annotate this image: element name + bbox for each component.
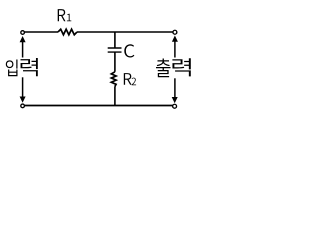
node terminal bottom-right (173, 104, 177, 108)
resistor R1 (58, 29, 77, 35)
node terminal top-left (21, 31, 25, 35)
node terminal top-right (173, 30, 177, 34)
wire middle branch between C and R2 (114, 52, 116, 72)
label R2 (124, 73, 136, 85)
resistor R2 (111, 72, 116, 87)
node terminal bottom-left (21, 104, 25, 108)
capacitor C (108, 48, 122, 52)
wire bottom (23, 105, 175, 107)
label R1 (58, 9, 72, 21)
label output 출력 (156, 58, 191, 77)
input arrow up (20, 36, 26, 58)
output arrow down (172, 78, 178, 103)
label C (124, 44, 134, 57)
wire middle branch upper (114, 32, 116, 48)
output arrow up (172, 36, 178, 58)
wire top left segment (23, 31, 58, 33)
input arrow down (20, 77, 26, 103)
wire middle branch lower (114, 86, 116, 105)
wire top right segment (77, 31, 175, 33)
label input 입력 (6, 58, 38, 76)
